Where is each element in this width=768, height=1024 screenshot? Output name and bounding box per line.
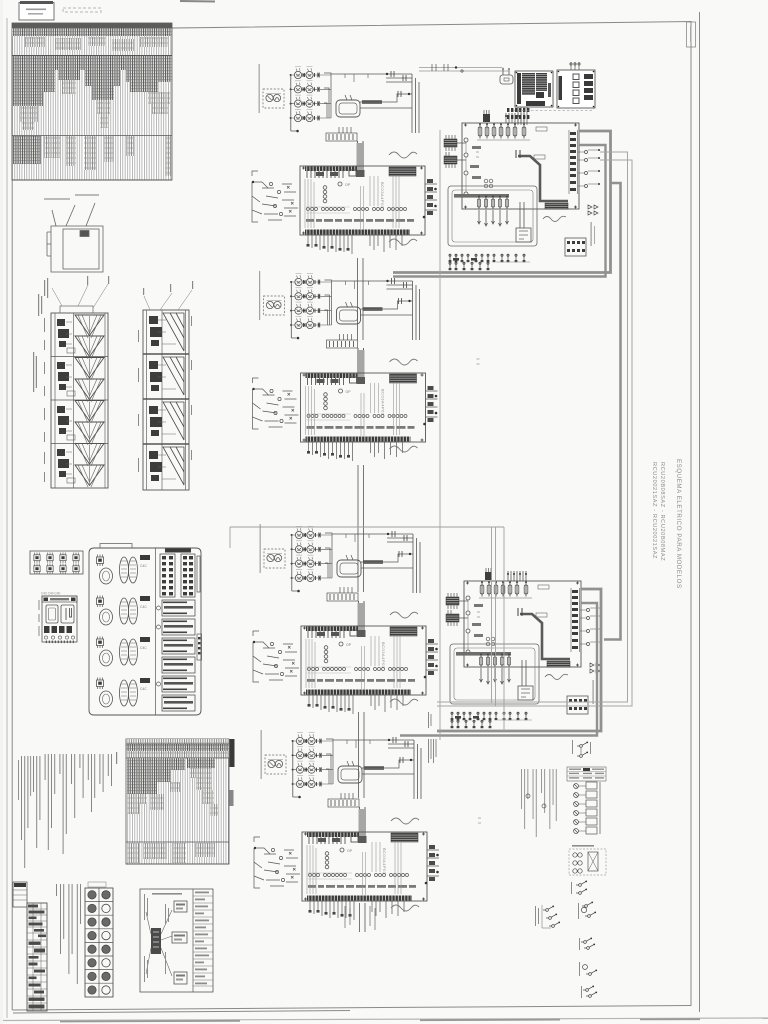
- svg-text:C4C: C4C: [140, 564, 147, 568]
- svg-text:RCU20B08SAZ - RCU20B08MAZ: RCU20B08SAZ - RCU20B08MAZ: [659, 462, 665, 561]
- svg-text:ESQUEMA ELETRICO PARA MODELOS: ESQUEMA ELETRICO PARA MODELOS: [675, 459, 682, 589]
- svg-text:RCU20021SAZ - RCU20021SAZ: RCU20021SAZ - RCU20021SAZ: [651, 462, 657, 559]
- svg-text:C40 C40 C40: C40 C40 C40: [41, 592, 61, 596]
